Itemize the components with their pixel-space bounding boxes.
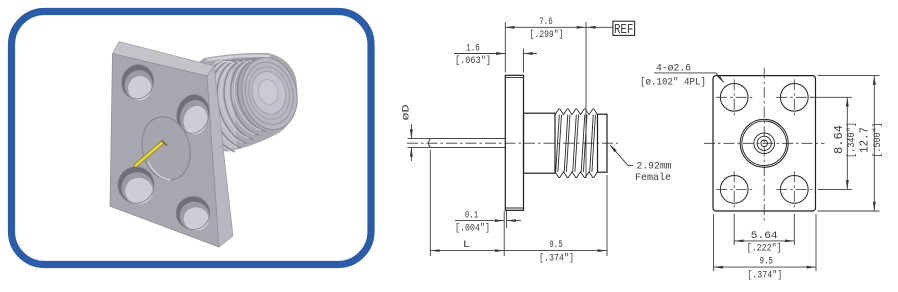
3D flange top face [113, 42, 215, 77]
horizontal centerline [704, 142, 825, 144]
dimension 5.64 [734, 214, 794, 255]
center conductor circles [740, 119, 788, 167]
3D flange right side face [207, 66, 233, 247]
svg-text:2.92mm: 2.92mm [637, 161, 672, 173]
svg-text:[.340″]: [.340″] [846, 122, 858, 158]
dimension 1.6 [454, 43, 537, 72]
dimension oD (pin diameter) [402, 105, 431, 162]
flange (side) [505, 75, 523, 210]
svg-text:REF: REF [614, 22, 634, 38]
label 2.92mm Female with leader [609, 144, 671, 184]
svg-text:[.004″]: [.004″] [455, 223, 490, 235]
svg-text:[.299″]: [.299″] [530, 29, 564, 41]
svg-text:[.063″]: [.063″] [455, 55, 491, 67]
dimension 0.1 [455, 211, 521, 257]
svg-text:9.5: 9.5 [759, 256, 773, 267]
svg-text:L: L [463, 240, 471, 251]
blue rounded frame [12, 12, 372, 265]
svg-text:0.1: 0.1 [465, 211, 479, 222]
REF box and leader [586, 21, 634, 38]
centerline [407, 142, 618, 144]
svg-text:Female: Female [635, 172, 671, 184]
svg-text:øD: øD [402, 105, 413, 121]
3D center recess [135, 112, 196, 186]
coupling end section [598, 114, 608, 172]
body smooth section [524, 113, 556, 173]
svg-text:8.64: 8.64 [833, 125, 846, 154]
threaded section [555, 109, 598, 178]
vertical centerline [763, 68, 765, 221]
dimension 9.5 (front) [714, 214, 816, 282]
svg-text:5.64: 5.64 [751, 231, 778, 242]
3D yellow center pin [135, 142, 164, 167]
svg-text:1.6: 1.6 [466, 43, 480, 54]
svg-text:9.5: 9.5 [549, 240, 563, 251]
svg-text:12.7: 12.7 [858, 127, 871, 153]
dimension 12.7 [818, 76, 884, 211]
3D mounting holes [117, 61, 158, 104]
3D flange front face [110, 54, 219, 247]
svg-text:[.222″]: [.222″] [747, 243, 782, 255]
dimension 9.5 (side) [504, 175, 607, 264]
3D threaded cylinder body [192, 52, 305, 152]
svg-text:7.6: 7.6 [539, 17, 553, 28]
dimension L [430, 150, 504, 256]
mounting holes (front) [720, 83, 748, 111]
contact pin [429, 139, 505, 148]
side view of connector [407, 75, 618, 210]
label 4-o2.6 with leader [640, 64, 724, 89]
3D connector render [110, 42, 305, 248]
svg-text:[.500″]: [.500″] [872, 123, 884, 158]
svg-text:[.374″]: [.374″] [747, 270, 782, 282]
svg-text:[ø.102″ 4PL]: [ø.102″ 4PL] [640, 77, 706, 89]
dimension 8.64 [810, 97, 858, 189]
dimension 7.6 REF [505, 17, 586, 178]
front view of flange [704, 68, 825, 221]
svg-text:[.374″]: [.374″] [539, 252, 574, 264]
flange outline (front) [713, 76, 816, 211]
